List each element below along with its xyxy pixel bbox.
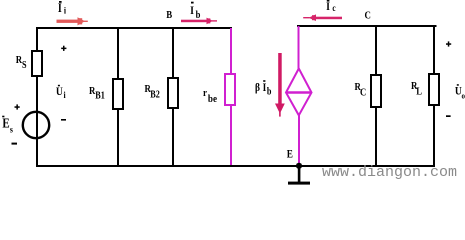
wire: RL branch (433, 25, 435, 166)
svg-text:U: U (56, 85, 63, 98)
current arrow Ib (crimson) (181, 18, 217, 25)
svg-text:C: C (365, 10, 371, 22)
resistor RS (32, 51, 42, 76)
svg-text:B1: B1 (95, 90, 105, 101)
current arrow Ii (red) (57, 17, 88, 25)
plus sign of Ui (61, 46, 66, 51)
label Ib (190, 2, 200, 22)
wire: top-left horizontal B-rail (36, 27, 232, 29)
svg-text:r: r (203, 87, 207, 99)
current arrow beta-Ib (dark crimson, pointing down) (275, 53, 285, 117)
node E junction dot (296, 163, 302, 169)
minus sign of Uo (446, 115, 451, 117)
svg-text:E: E (2, 116, 9, 131)
wire: controlled-source bottom magenta segment (298, 115, 300, 166)
svg-text:B2: B2 (150, 89, 160, 100)
controlled current source diamond (286, 69, 312, 116)
svg-text:β: β (255, 82, 260, 94)
resistor r_be (225, 74, 235, 105)
label Ic (326, 0, 336, 13)
label RL (411, 80, 422, 98)
label Ii (58, 1, 67, 16)
minus sign of Ui (61, 119, 66, 121)
plus sign of Es (15, 104, 20, 109)
svg-text:B: B (166, 9, 172, 21)
label beta-Ib (255, 80, 271, 96)
svg-text:c: c (332, 3, 336, 13)
label Es (2, 116, 13, 135)
wire: controlled-source top magenta segment (298, 26, 300, 69)
svg-text:E: E (287, 149, 293, 161)
wire: RB1 branch (117, 28, 119, 166)
svg-text:b: b (267, 86, 272, 97)
wire: r_be magenta branch (230, 28, 232, 165)
minus sign of Es (12, 143, 18, 145)
wire: RC branch (375, 26, 377, 166)
resistor RB1 (113, 79, 123, 109)
resistor RB2 (168, 78, 178, 108)
svg-text:I: I (263, 82, 267, 94)
ground (288, 166, 310, 185)
svg-text:I: I (58, 2, 62, 15)
label RS (16, 54, 27, 70)
wire: top-right horizontal C-rail (297, 25, 437, 27)
svg-text:S: S (22, 59, 27, 70)
source Es circle (23, 112, 49, 138)
current arrow Ic (crimson, pointing left) (303, 14, 342, 21)
label RC (355, 81, 367, 99)
wire: left vertical source branch (36, 27, 38, 167)
svg-text:b: b (196, 9, 201, 21)
plus sign of Uo (446, 41, 451, 46)
label RB1 (89, 85, 105, 101)
label Ui (56, 85, 66, 100)
wire: bottom ground rail (36, 165, 435, 167)
resistor RC (371, 75, 381, 107)
svg-text:be: be (208, 93, 218, 105)
label RB2 (145, 83, 161, 99)
wire: RB2 branch (172, 28, 174, 166)
label r_be (203, 87, 218, 105)
resistor RL (429, 74, 439, 105)
svg-text:I: I (326, 0, 330, 13)
svg-text:L: L (416, 86, 422, 98)
svg-text:C: C (360, 87, 366, 99)
svg-text:I: I (190, 4, 194, 17)
svg-text:o: o (461, 91, 465, 101)
label Uo (455, 84, 465, 100)
svg-text:www.diangon.com: www.diangon.com (322, 164, 457, 181)
